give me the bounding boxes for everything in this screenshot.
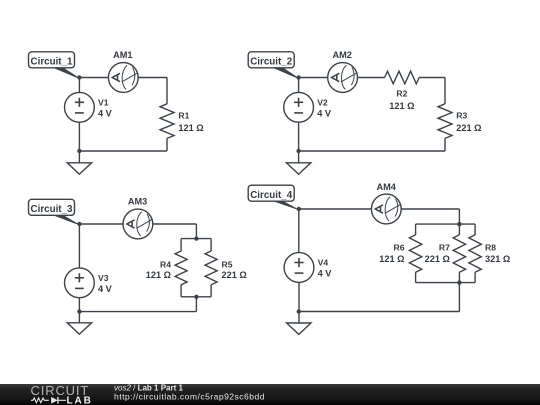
R7 bottom stub [458, 272, 460, 282]
wire parallel pair down to bottom wire [195, 297, 197, 312]
top rail of R6-R7-R8 parallel group [416, 223, 476, 225]
bottom junction dot circuit 1 [77, 149, 81, 153]
resistor R3 [438, 104, 452, 139]
voltage source V3 [65, 268, 95, 298]
svg-text:221 Ω: 221 Ω [222, 270, 247, 280]
voltage source V1 [65, 92, 95, 122]
svg-text:AM4: AM4 [376, 182, 396, 192]
bottom wire circuit 3 [79, 311, 196, 313]
wire node2 to AM2 [299, 77, 328, 79]
resistor R7 [453, 235, 465, 272]
wire node3 to AM3 [79, 223, 123, 225]
resistor R5 [205, 251, 217, 285]
node 3 junction dot [77, 222, 81, 226]
ground circuit 3 [67, 323, 91, 334]
svg-text:AM3: AM3 [128, 197, 147, 207]
svg-text:Circuit_3: Circuit_3 [31, 204, 73, 215]
svg-text:R1: R1 [178, 111, 189, 121]
wire node2 down to V2 [298, 78, 300, 93]
V1 name and value labels [98, 97, 113, 118]
wire V3 bottom to ground junction [78, 298, 80, 323]
R5 top stub [210, 239, 212, 252]
R2 name and value labels [389, 89, 414, 111]
ammeter AM3 [123, 209, 153, 239]
resistor R8 [469, 235, 481, 272]
wire node1 to AM1 [79, 77, 108, 79]
ammeter AM2 [328, 63, 358, 93]
R1 name and value labels [178, 111, 203, 133]
svg-text:AM1: AM1 [113, 50, 132, 60]
node 4 junction dot [297, 207, 301, 211]
svg-text:R7: R7 [439, 242, 450, 252]
ground circuit 1 [67, 163, 91, 174]
svg-text:4 V: 4 V [98, 284, 113, 294]
R8 bottom stub [474, 272, 476, 282]
svg-text:Circuit_1: Circuit_1 [31, 56, 73, 67]
bottom wire circuit 1 [79, 150, 167, 152]
svg-text:321 Ω: 321 Ω [485, 254, 510, 264]
wire AM1 to top-right corner [138, 77, 167, 79]
resistor R4 [175, 251, 187, 285]
svg-text:V1: V1 [98, 97, 109, 107]
R3 name and value labels [456, 111, 481, 133]
R6 name and value labels [379, 242, 404, 264]
bottom rail junction dot [457, 280, 461, 284]
wire R2 to top-right corner [419, 77, 445, 79]
svg-text:R5: R5 [222, 259, 233, 269]
ground circuit 2 [286, 163, 310, 174]
node 1 junction dot [77, 75, 81, 79]
wire corner down to parallel top rail [195, 224, 197, 239]
top rail junction dot [194, 236, 198, 240]
svg-text:V4: V4 [318, 258, 329, 268]
wire node3 down to V3 [78, 224, 80, 268]
svg-text:R3: R3 [456, 111, 467, 121]
R4 bottom stub [180, 285, 182, 297]
bottom rail of R4-R5 parallel pair [181, 296, 211, 298]
wire node1 down to V1 [78, 78, 80, 93]
svg-text:http://circuitlab.com/c5rap92s: http://circuitlab.com/c5rap92sc6bdd [114, 391, 265, 401]
wire node4 down to V4 [298, 209, 300, 253]
bottom junction dot circuit 2 [296, 149, 300, 153]
wire AM4 right to corner [401, 208, 459, 210]
wire R3 bottom to bottom rail [444, 138, 446, 151]
wire parallel group down to bottom wire [458, 283, 460, 312]
node 2 junction dot [296, 75, 300, 79]
wire node4 to AM4 [299, 208, 372, 210]
CircuitLab logo resistor-diode glyph [31, 397, 66, 404]
top rail junction dot [457, 222, 461, 226]
svg-text:AM2: AM2 [332, 50, 351, 60]
bottom wire circuit 2 [299, 150, 445, 152]
R4 name and value labels [146, 259, 171, 280]
svg-text:Circuit_4: Circuit_4 [250, 190, 292, 201]
V3 name and value labels [98, 273, 113, 294]
wire AM2 to R2 [358, 77, 385, 79]
svg-text:221 Ω: 221 Ω [456, 123, 481, 133]
wire AM3 right to corner [153, 223, 197, 225]
svg-text:R8: R8 [485, 242, 496, 252]
V2 name and value labels [317, 97, 332, 118]
svg-text:R2: R2 [396, 89, 407, 99]
voltage source V2 [284, 92, 314, 122]
wire R1 bottom to bottom rail [166, 138, 168, 151]
resistor R2 [385, 71, 420, 84]
svg-text:121 Ω: 121 Ω [178, 123, 203, 133]
top rail of R4-R5 parallel pair [181, 238, 211, 240]
bottom wire circuit 4 [299, 311, 460, 313]
net name flag Circuit_3 [29, 199, 81, 225]
R5 name and value labels [222, 259, 247, 280]
svg-text:221 Ω: 221 Ω [425, 254, 450, 264]
svg-text:121 Ω: 121 Ω [389, 101, 414, 111]
resistor R6 [409, 235, 421, 272]
R6 top stub [415, 224, 417, 235]
svg-text:4 V: 4 V [317, 109, 332, 119]
R7 name and value labels [425, 242, 450, 264]
svg-text:R4: R4 [160, 259, 171, 269]
R5 bottom stub [210, 285, 212, 297]
wire V4 bottom to ground junction [298, 282, 300, 323]
svg-text:V2: V2 [317, 97, 328, 107]
net name flag Circuit_1 [29, 52, 81, 79]
svg-text:4 V: 4 V [318, 269, 333, 279]
bottom rail junction dot [194, 295, 198, 299]
ammeter AM1 [108, 63, 138, 93]
voltage source V4 [284, 253, 314, 283]
svg-text:121 Ω: 121 Ω [379, 254, 404, 264]
R8 top stub [474, 224, 476, 235]
R8 name and value labels [485, 242, 510, 264]
net name flag Circuit_2 [248, 52, 300, 79]
wire corner down to parallel top rail [458, 209, 460, 224]
svg-text:121 Ω: 121 Ω [146, 270, 171, 280]
svg-text:V3: V3 [98, 273, 109, 283]
svg-text:R6: R6 [394, 242, 405, 252]
bottom junction dot circuit 3 [77, 309, 81, 313]
ground circuit 4 [287, 323, 311, 334]
bottom rail of R6-R7-R8 parallel group [416, 282, 476, 284]
R7 top stub [458, 224, 460, 235]
ammeter AM4 [371, 194, 401, 224]
wire V2 bottom to ground junction [298, 122, 300, 163]
wire V1 bottom to ground junction [78, 122, 80, 163]
R6 bottom stub [415, 272, 417, 282]
resistor R1 [160, 104, 174, 139]
V4 name and value labels [318, 258, 333, 279]
wire corner down to R3 [444, 78, 446, 104]
svg-text:4 V: 4 V [98, 109, 113, 119]
bottom junction dot circuit 4 [297, 309, 301, 313]
footer bar background [0, 384, 540, 405]
svg-text:LAB: LAB [67, 395, 93, 405]
R4 top stub [180, 239, 182, 252]
net name flag Circuit_4 [248, 185, 300, 210]
wire corner down to R1 [166, 78, 168, 104]
svg-text:Circuit_2: Circuit_2 [250, 56, 292, 67]
